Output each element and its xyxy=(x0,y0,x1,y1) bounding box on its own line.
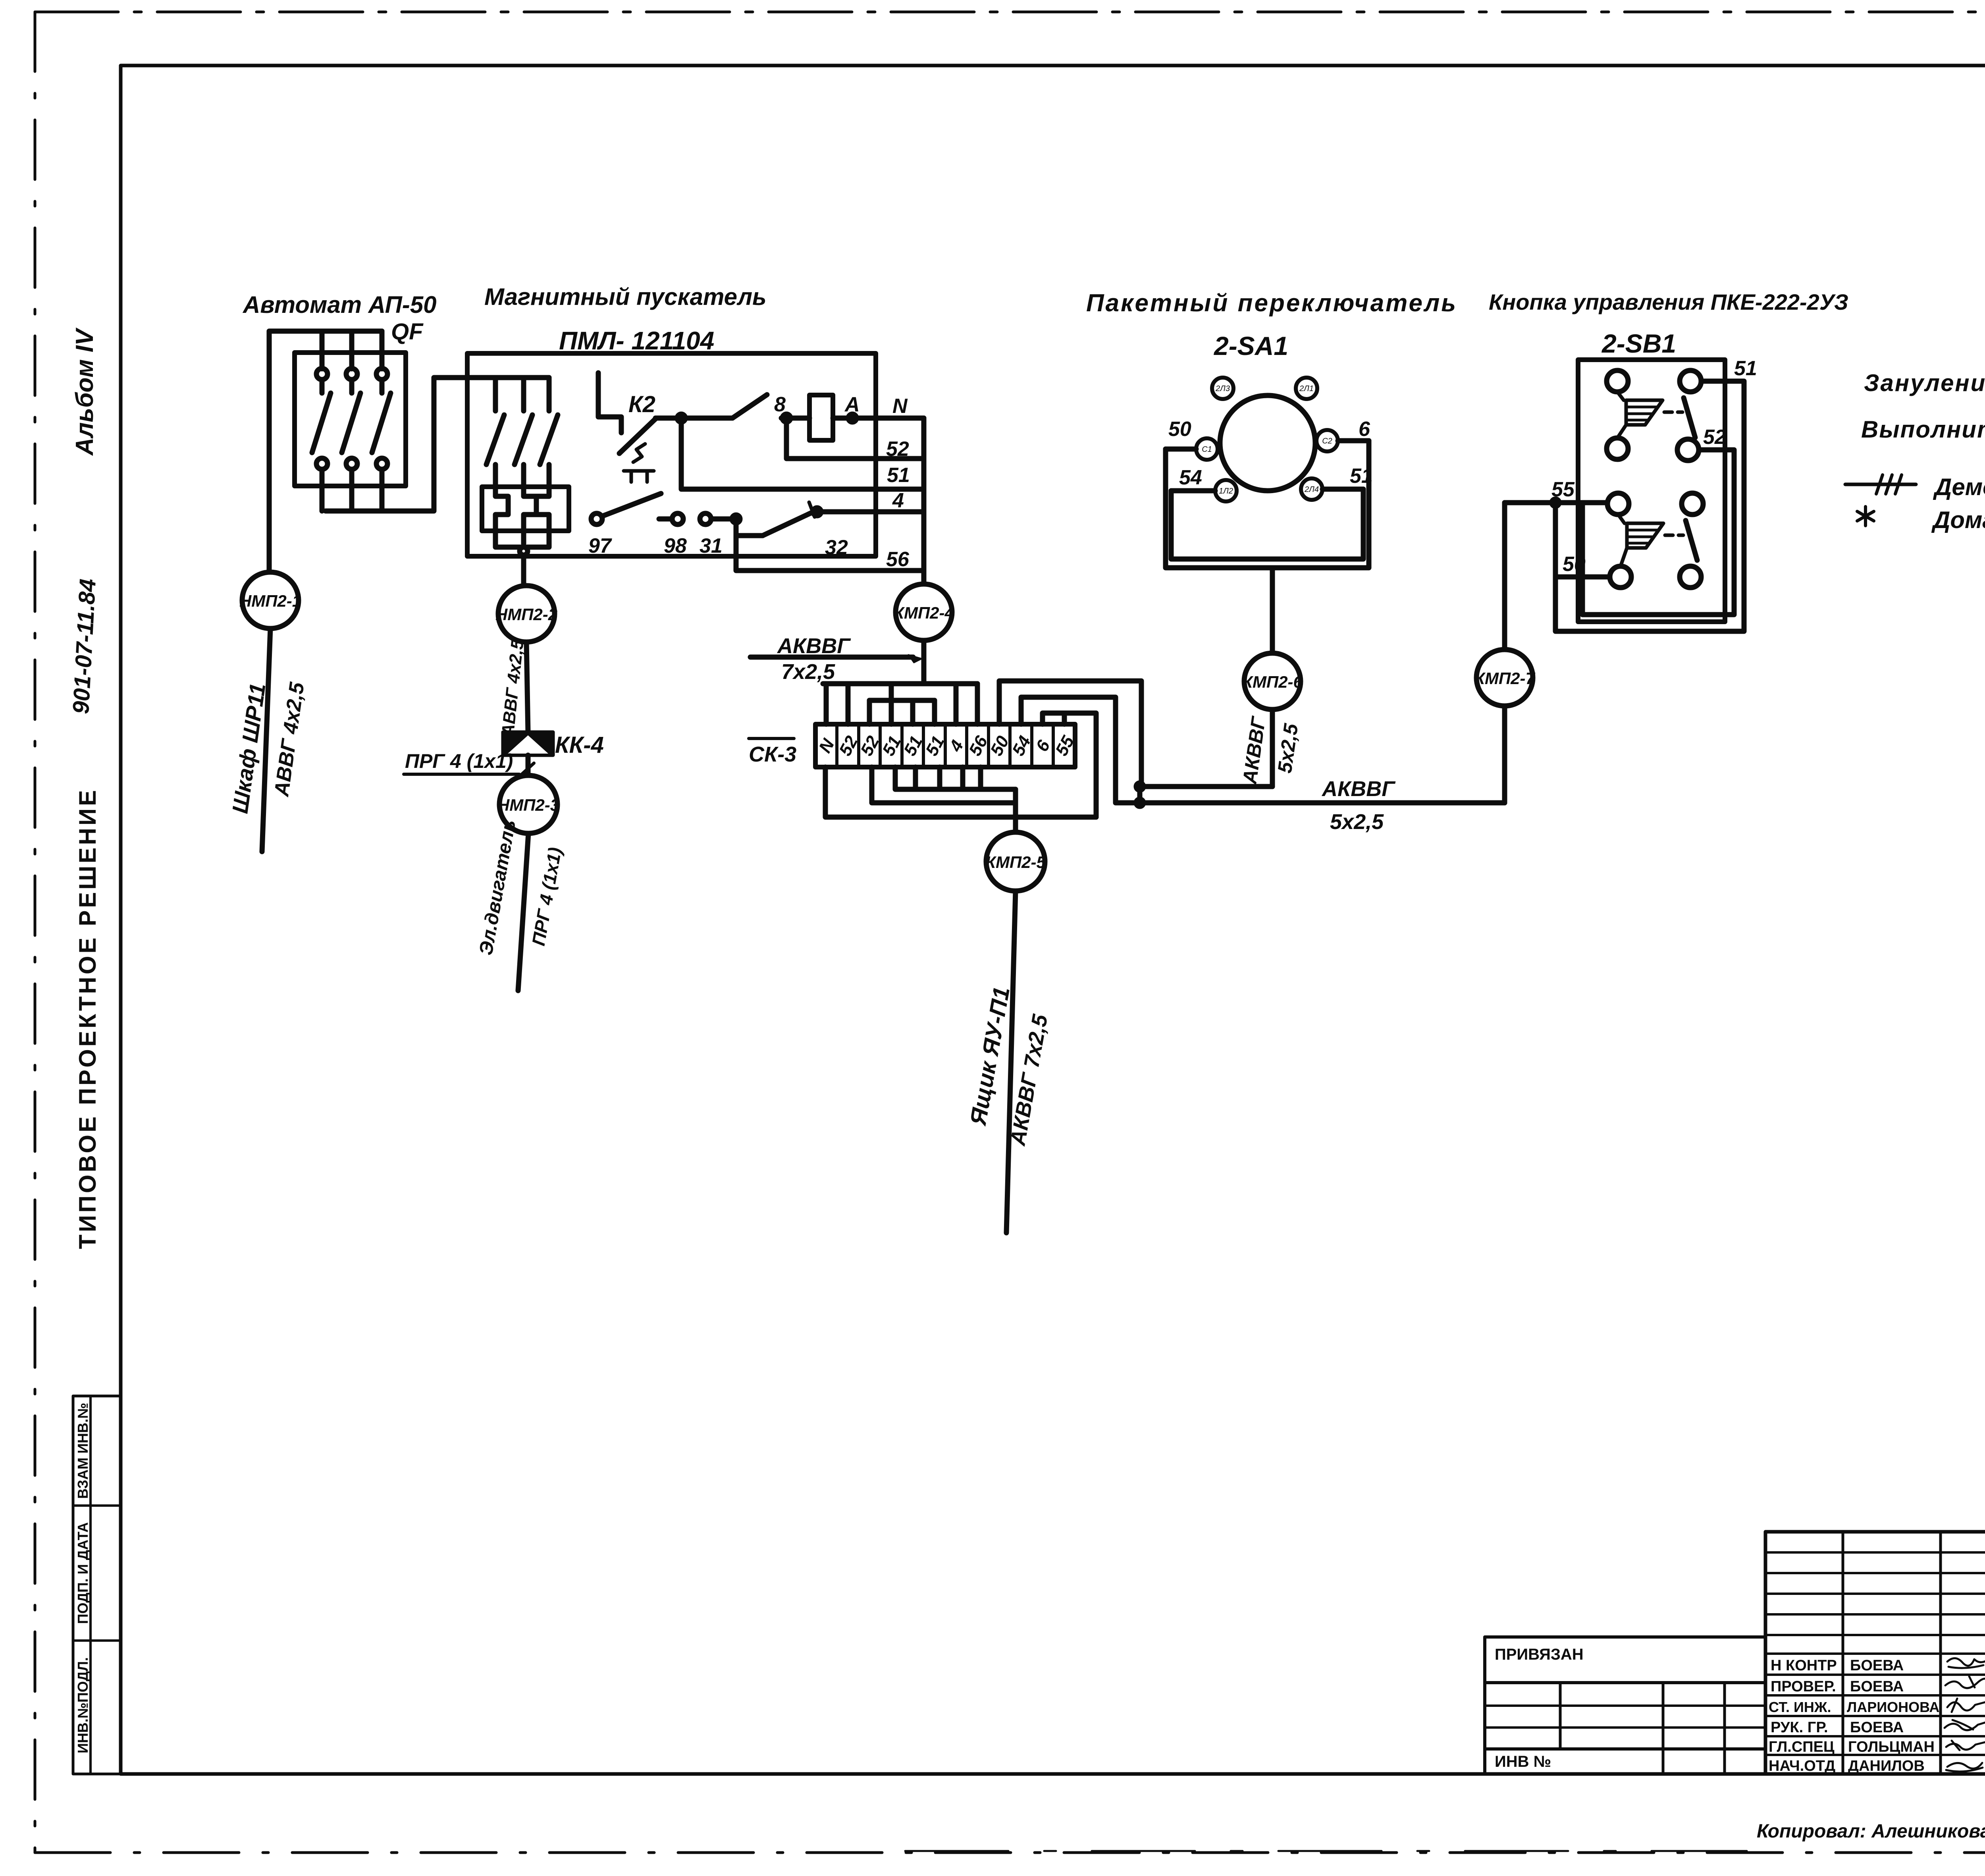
bottom bus middle xyxy=(872,767,1016,803)
signature table column lines xyxy=(1843,1532,1985,1774)
svg-text:Выполнить согласно ПУЭ §I-: Выполнить согласно ПУЭ §I-7-39 xyxy=(1861,416,1985,443)
СК-3 label overline xyxy=(749,737,794,740)
inner loop terminals 6 and 55 xyxy=(1043,713,1096,817)
privyazan table xyxy=(1485,1637,1765,1774)
switch inner bundle U xyxy=(1171,489,1363,559)
QF pole 3 bottom terminal xyxy=(376,458,387,469)
wire fuse to НМП2-3 xyxy=(526,755,531,775)
junction node upper xyxy=(1136,783,1143,790)
QF pole 1 bottom terminal xyxy=(316,458,328,469)
svg-text:С1: С1 xyxy=(1202,445,1212,454)
wire cable to ШР11 cabinet xyxy=(262,629,270,852)
contact 97-98 blade xyxy=(602,494,661,516)
thermal element pole 1 xyxy=(495,487,508,531)
svg-text:4: 4 xyxy=(892,489,904,512)
outer dashed border left xyxy=(34,12,37,1853)
upper actuator hatches xyxy=(1626,407,1658,420)
wire 55 line xyxy=(1505,500,1607,505)
svg-text:31: 31 xyxy=(700,534,723,557)
left margin table row divider 2 xyxy=(73,1639,121,1642)
svg-text:С2: С2 xyxy=(1322,437,1332,445)
QF pole 1 top terminal xyxy=(316,368,328,380)
svg-text:2Л3: 2Л3 xyxy=(1215,384,1230,393)
upper unit terminal top left xyxy=(1607,370,1628,392)
QF pole 2 lead xyxy=(349,380,355,393)
svg-text:5х2,5: 5х2,5 xyxy=(1330,810,1384,834)
svg-text:98: 98 xyxy=(664,534,687,557)
cable marker НМП2-3 xyxy=(499,775,557,833)
contactor pole 1 lower lead xyxy=(493,465,498,487)
contactor pole 3 blade xyxy=(540,415,558,465)
bottom stub 51c xyxy=(913,767,918,789)
fan inner bus xyxy=(869,698,935,703)
button 2-SB1 box xyxy=(1578,360,1725,622)
svg-text:1Л2: 1Л2 xyxy=(1219,487,1233,496)
upper unit terminal bottom right xyxy=(1677,439,1699,461)
wire КМП2-5 to box ЯУ-П1 xyxy=(1006,891,1016,1233)
svg-text:А: А xyxy=(844,393,860,416)
K2 release bar xyxy=(624,471,654,482)
contactor pole 1 blade xyxy=(486,415,504,465)
svg-text:7х2,5: 7х2,5 xyxy=(781,660,835,684)
wire poles converge xyxy=(495,531,549,547)
terminal С2 xyxy=(1316,430,1338,451)
wire branch 56 xyxy=(736,519,924,571)
lower unit terminal bottom right xyxy=(1680,566,1701,588)
svg-text:Зануление корпусов приборов: Зануление корпусов приборов и оборудован… xyxy=(1864,370,1985,396)
upper actuator stem xyxy=(1617,392,1624,400)
node 55 junction xyxy=(1552,499,1559,506)
fan drop to 51c xyxy=(932,700,937,724)
svg-text:Копировал: Алешникова: Копировал: Алешникова xyxy=(1757,1821,1985,1842)
QF pole 3 top lead xyxy=(380,331,385,369)
svg-text:8: 8 xyxy=(774,393,786,416)
legend asterisk symbol xyxy=(1857,507,1874,526)
svg-text:КМП2-4: КМП2-4 xyxy=(894,603,954,622)
svg-text:ПРИВЯЗАН: ПРИВЯЗАН xyxy=(1495,1646,1584,1663)
outer dashed border bottom xyxy=(35,1851,1985,1854)
aux NO contact blade xyxy=(732,395,767,418)
wire to marker КМП2-2 xyxy=(521,555,526,586)
svg-text:БОЕВА: БОЕВА xyxy=(1850,1657,1904,1674)
cable marker КМП2-5 xyxy=(986,832,1045,891)
lower actuator lower stem xyxy=(1621,548,1627,566)
node A xyxy=(848,414,856,422)
svg-text:ГЛ.СПЕЦ: ГЛ.СПЕЦ xyxy=(1769,1739,1835,1755)
svg-text:БОЕВА: БОЕВА xyxy=(1850,1719,1904,1736)
svg-text:51: 51 xyxy=(1734,357,1757,380)
fan drop to 51b xyxy=(889,684,894,724)
lower unit terminal top right xyxy=(1682,493,1703,515)
svg-text:51: 51 xyxy=(1350,465,1373,488)
wire drop to КМП2-6 xyxy=(1270,568,1275,653)
svg-text:Кнопка управления ПКЕ-222-2У: Кнопка управления ПКЕ-222-2УЗ xyxy=(1489,289,1848,314)
upper dashed link xyxy=(1664,411,1682,414)
lower unit terminal bottom left xyxy=(1610,566,1631,588)
signature table row lines xyxy=(1765,1552,1985,1755)
NC contact tick xyxy=(809,502,815,517)
QF pole 1 bottom lead xyxy=(320,469,325,511)
junction node lower xyxy=(1136,799,1143,806)
svg-text:55: 55 xyxy=(1551,478,1575,501)
legend demolish symbol line xyxy=(1845,483,1916,486)
wire supply riser to QF top bus xyxy=(269,331,382,572)
QF pole 3 bottom lead xyxy=(380,469,385,511)
svg-text:Домаркировать: Домаркировать xyxy=(1931,507,1985,533)
svg-text:97: 97 xyxy=(588,534,612,557)
terminal 98 xyxy=(672,513,683,524)
fan drop to 56 xyxy=(975,684,980,724)
legend demolish slashes xyxy=(1876,475,1902,494)
node 8 xyxy=(782,414,790,422)
bottom bus inner xyxy=(895,767,1016,789)
QF pole 3 top terminal xyxy=(376,368,387,380)
svg-text:КМП2-6: КМП2-6 xyxy=(1242,673,1303,691)
QF pole 1 lead xyxy=(320,380,325,393)
lower actuator stem xyxy=(1618,515,1625,523)
fuse КК-4 body xyxy=(503,732,553,755)
svg-text:Магнитный пускатель: Магнитный пускатель xyxy=(484,283,767,310)
svg-text:НМП2-1: НМП2-1 xyxy=(239,592,301,610)
outer dash-dot border top xyxy=(35,11,1985,13)
leader АКВВГ 7х2.5 xyxy=(750,655,913,660)
K2 contact blade xyxy=(619,419,655,453)
wire НМП2-3 to motor xyxy=(518,833,528,991)
svg-text:КМП2-7: КМП2-7 xyxy=(1474,669,1535,688)
fuse КК-4 white triangle xyxy=(508,735,548,754)
wire branch 4 xyxy=(817,509,924,515)
svg-text:32: 32 xyxy=(825,536,848,559)
lower actuator hatches xyxy=(1627,530,1659,543)
starter ПМЛ-121104 box xyxy=(467,353,876,556)
svg-text:ЛАРИОНОВА: ЛАРИОНОВА xyxy=(1847,1699,1939,1715)
fan drop to 4 xyxy=(954,684,959,724)
bottom stub 56 xyxy=(960,767,966,789)
svg-text:50: 50 xyxy=(1168,418,1191,441)
svg-text:2Л1: 2Л1 xyxy=(1299,384,1314,393)
bottom bus outer xyxy=(825,767,1096,817)
fan drop to 52b xyxy=(867,700,872,724)
svg-text:N: N xyxy=(892,395,908,418)
wire branch 52 xyxy=(786,418,924,459)
svg-text:ГОЛЬЦМАН: ГОЛЬЦМАН xyxy=(1848,1739,1935,1755)
svg-text:52: 52 xyxy=(886,438,909,461)
svg-text:QF: QF xyxy=(391,319,424,345)
node 31 junction xyxy=(732,515,740,523)
wire НМП2-2 to fuse КК-4 xyxy=(526,642,528,732)
svg-text:НМП2-3: НМП2-3 xyxy=(497,796,559,814)
wire 6 from С2 xyxy=(1338,438,1369,443)
upper contact blade xyxy=(1684,398,1695,438)
cable marker НМП2-2 xyxy=(498,586,555,642)
upper actuator lower stem xyxy=(1617,425,1626,438)
svg-text:ПРОВЕР.: ПРОВЕР. xyxy=(1771,1678,1836,1695)
svg-text:РУК. ГР.: РУК. ГР. xyxy=(1771,1719,1828,1736)
terminal strip СК-3 body xyxy=(815,724,1075,767)
cable marker КМП2-6 xyxy=(1244,653,1301,710)
wire 52 wrap xyxy=(1582,450,1734,615)
QF pole 1 top lead xyxy=(320,331,325,369)
svg-text:Автомат АП-50: Автомат АП-50 xyxy=(242,291,436,318)
QF pole 2 bottom terminal xyxy=(346,458,357,469)
QF pole 2 top terminal xyxy=(346,368,357,380)
contactor pole 2 lower lead xyxy=(521,465,526,487)
contactor pole 3 lower lead xyxy=(547,465,552,487)
wire drop to КМП2-5 xyxy=(1013,789,1018,832)
svg-text:Пакетный переключатель: Пакетный переключатель xyxy=(1086,289,1457,317)
fan drop to N xyxy=(824,684,829,724)
terminal С1 xyxy=(1196,438,1218,460)
cable marker НМП2-1 xyxy=(242,572,299,629)
NC contact 31-32 step xyxy=(736,519,763,536)
left margin stamp table xyxy=(73,1396,121,1774)
svg-text:ДАНИЛОВ: ДАНИЛОВ xyxy=(1848,1758,1925,1774)
QF pole 2 blade xyxy=(342,393,360,453)
svg-text:2-SA1: 2-SA1 xyxy=(1213,331,1288,361)
svg-text:ТИПОВОЕ ПРОЕКТНОЕ РЕШЕНИЕ: ТИПОВОЕ ПРОЕКТНОЕ РЕШЕНИЕ xyxy=(74,788,101,1249)
lower actuator flag xyxy=(1627,523,1663,548)
svg-text:СК-3: СК-3 xyxy=(749,742,796,766)
svg-text:51: 51 xyxy=(887,464,910,487)
terminal 2Л4 xyxy=(1301,478,1322,500)
switch outer bundle U xyxy=(1166,441,1369,568)
bottom stub 50 xyxy=(978,767,983,789)
svg-text:АКВВГ: АКВВГ xyxy=(777,634,851,658)
QF pole 2 top lead xyxy=(349,331,355,369)
wire 51 wrap xyxy=(1555,381,1744,631)
contactor coil К2 xyxy=(809,395,833,440)
wire branch 51 xyxy=(681,418,924,489)
QF pole 1 blade xyxy=(312,393,331,453)
terminal 1Л2 xyxy=(1215,480,1237,501)
svg-text:ПОДП. И ДАТА: ПОДП. И ДАТА xyxy=(75,1522,91,1624)
upper actuator flag xyxy=(1626,400,1663,425)
wire K2 to junction xyxy=(655,416,732,421)
fan drop to 52a xyxy=(846,684,851,724)
lower contact blade xyxy=(1686,521,1697,560)
svg-text:НАЧ.ОТД: НАЧ.ОТД xyxy=(1769,1758,1835,1774)
junction between cable lines xyxy=(1137,787,1143,803)
svg-text:56: 56 xyxy=(886,548,910,571)
stub terminal 55 xyxy=(1062,713,1067,724)
thermal overload relay box xyxy=(482,487,569,531)
terminal fan top bus xyxy=(823,681,977,686)
contactor pole 2 blade xyxy=(515,415,532,465)
handwritten signatures xyxy=(1947,1654,1985,1668)
cable marker КМП2-4 xyxy=(896,584,952,640)
wire 50 from С1 xyxy=(1166,447,1196,452)
terminal cell dividers xyxy=(837,724,1053,767)
ПРГ4 label underline xyxy=(404,773,519,776)
svg-text:КМП2-5: КМП2-5 xyxy=(985,853,1046,871)
svg-text:ПМЛ- 121104: ПМЛ- 121104 xyxy=(559,326,714,355)
right loop to КМП2-7 line xyxy=(1021,697,1505,803)
wire 51 from 2Л4 xyxy=(1322,487,1363,492)
QF pole 3 lead xyxy=(380,380,385,393)
terminal 31 xyxy=(700,513,711,524)
wire КМП2-6 down xyxy=(1270,710,1275,787)
leader arrowhead xyxy=(908,655,922,663)
QF pole 2 bottom lead xyxy=(349,469,355,511)
svg-text:БОЕВА: БОЕВА xyxy=(1850,1678,1904,1695)
wire N bus vertical xyxy=(921,418,927,584)
title block signature table frame xyxy=(1765,1532,1985,1774)
terminal 2Л3 xyxy=(1212,378,1233,399)
terminal 2Л1 xyxy=(1296,378,1317,399)
svg-text:ИНВ №: ИНВ № xyxy=(1495,1753,1551,1770)
svg-text:Альбом IV: Альбом IV xyxy=(71,327,98,456)
wire contact to coil xyxy=(781,416,809,421)
right loop to КМП2-6 line xyxy=(999,681,1272,787)
core count tick xyxy=(521,763,534,775)
svg-text:2-SB1: 2-SB1 xyxy=(1601,329,1676,358)
svg-text:КК-4: КК-4 xyxy=(555,732,604,758)
svg-text:К2: К2 xyxy=(628,391,655,417)
wire drop to КМП2-7 xyxy=(1502,503,1507,650)
svg-text:ВЗАМ ИНВ.№: ВЗАМ ИНВ.№ xyxy=(75,1403,91,1499)
bottom stub 4 xyxy=(937,767,942,789)
svg-text:ПРГ 4 (1х1): ПРГ 4 (1х1) xyxy=(405,750,513,772)
cable entry node xyxy=(520,547,528,555)
svg-text:54: 54 xyxy=(1179,466,1202,489)
cable marker КМП2-7 xyxy=(1476,650,1533,706)
svg-text:НМП2-2: НМП2-2 xyxy=(495,605,557,624)
wire 31 to junction xyxy=(711,517,736,522)
svg-text:АКВВГ: АКВВГ xyxy=(1321,777,1396,801)
contactor pole 3 lead xyxy=(547,378,552,411)
svg-text:СТ. ИНЖ.: СТ. ИНЖ. xyxy=(1769,1699,1831,1715)
wire КМП2-7 down xyxy=(1502,706,1507,803)
lower dashed link xyxy=(1665,534,1683,537)
K2 release zigzag xyxy=(633,444,645,462)
upper unit terminal top right xyxy=(1680,370,1701,392)
svg-text:Н КОНТР: Н КОНТР xyxy=(1771,1657,1837,1674)
privyazan inner column lines xyxy=(1560,1683,1725,1774)
lower unit terminal top left xyxy=(1607,493,1629,515)
fan drop to 51a xyxy=(910,700,915,724)
switch 2-SA1 body xyxy=(1220,395,1315,491)
left margin table row divider 1 xyxy=(73,1504,121,1507)
circuit breaker QF box xyxy=(295,353,406,486)
svg-text:2Л4: 2Л4 xyxy=(1304,485,1319,494)
K2 thermal contact lead xyxy=(598,373,621,433)
svg-text:ИНВ.№ПОДЛ.: ИНВ.№ПОДЛ. xyxy=(75,1657,91,1753)
svg-text:6: 6 xyxy=(1359,418,1370,441)
thermal element pole 2 xyxy=(524,487,536,531)
node 32 xyxy=(813,508,821,516)
wire 54 from 1Л2 xyxy=(1171,488,1215,494)
terminal 98 lead xyxy=(659,517,672,522)
contactor pole 2 lead xyxy=(521,378,526,411)
wire QF output bus to starter xyxy=(326,378,549,511)
privyazan inner row lines xyxy=(1485,1706,1765,1728)
QF pole 3 blade xyxy=(372,393,391,453)
wire coil to N xyxy=(833,416,924,421)
terminal 97 xyxy=(591,513,602,524)
left margin table column divider xyxy=(89,1396,92,1774)
wire КМП2-4 to terminal fan xyxy=(921,640,927,684)
svg-text:Демонтировать: Демонтировать xyxy=(1933,474,1985,500)
upper unit terminal bottom left xyxy=(1607,438,1628,459)
svg-text:52: 52 xyxy=(1703,426,1726,449)
thermal element pole 3 xyxy=(536,487,549,531)
svg-text:50: 50 xyxy=(1563,553,1586,576)
kopiroval underline xyxy=(905,1850,1747,1852)
contactor pole 1 lead xyxy=(493,378,498,411)
wire 50 branch xyxy=(1555,503,1610,577)
junction node 51 tap xyxy=(677,414,685,422)
NC contact blade xyxy=(763,512,813,536)
